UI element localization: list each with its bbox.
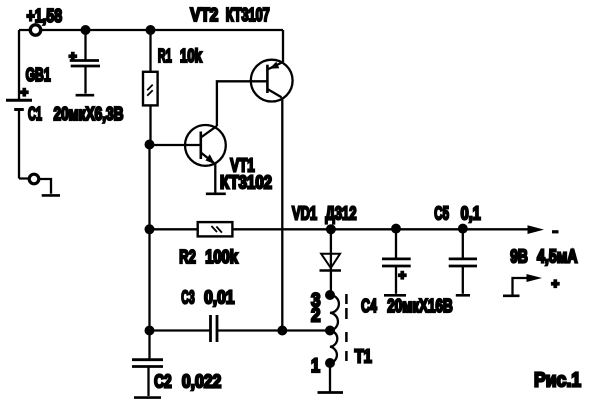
svg-text:R2: R2 <box>179 247 196 267</box>
label VT2 <box>190 5 269 25</box>
node C1 top junction <box>81 25 91 35</box>
svg-text:Т1: Т1 <box>355 347 372 367</box>
capacitor C4 <box>382 229 411 294</box>
ground bar C1 <box>76 94 95 97</box>
svg-text:100k: 100k <box>205 247 239 267</box>
arrow output minus <box>528 225 545 234</box>
wire left vertical R1 to C2 <box>148 145 150 331</box>
svg-text:C3: C3 <box>181 288 194 308</box>
svg-text:4,5мА: 4,5мА <box>537 247 578 267</box>
capacitor C2 <box>132 331 163 397</box>
svg-text:VD1: VD1 <box>292 204 317 224</box>
wire R2 left <box>150 228 198 230</box>
svg-text:C5: C5 <box>434 204 449 224</box>
label pin 2 <box>311 306 321 327</box>
core T1 dashed <box>345 294 348 361</box>
node VD1 anode junction <box>326 224 336 234</box>
wire VT2 emitter lead <box>282 30 284 62</box>
svg-text:+: + <box>21 85 29 100</box>
wire left battery lead <box>18 30 20 99</box>
node C5 top junction <box>458 224 468 234</box>
inductor T1 lower winding <box>330 331 337 364</box>
svg-text:КТ3107: КТ3107 <box>226 5 270 25</box>
resistor R1 <box>143 30 158 145</box>
svg-text:1: 1 <box>311 356 320 377</box>
resistor R2 <box>198 222 233 236</box>
label C4 plus <box>399 268 407 283</box>
node T1 pin3 <box>325 290 335 300</box>
svg-text:Д312: Д312 <box>325 204 356 224</box>
svg-text:10k: 10k <box>180 46 203 66</box>
wire to T1 tap <box>282 329 330 331</box>
capacitor C1 <box>70 30 100 94</box>
terminal battery negative <box>29 174 39 184</box>
wire VT2 collector lead <box>281 97 283 330</box>
svg-text:C2: C2 <box>154 372 172 392</box>
svg-text:20мкХ6,3В: 20мкХ6,3В <box>54 104 124 124</box>
wire VT1 base <box>150 144 201 146</box>
terminal +1,58 input <box>30 25 40 35</box>
label T1 <box>355 347 372 367</box>
ground bar output plus <box>503 294 520 297</box>
arrow output plus <box>527 274 543 282</box>
label figure caption <box>534 370 581 392</box>
svg-text:C1: C1 <box>28 104 42 124</box>
label minus sign <box>552 230 559 233</box>
ground bar C4 <box>384 294 406 297</box>
ground bar C2 <box>134 396 161 399</box>
label GB1 <box>26 65 51 85</box>
svg-text:GB1: GB1 <box>26 65 51 85</box>
label C3 <box>181 288 234 308</box>
diode VD1 <box>320 229 342 295</box>
transistor VT1 <box>185 125 226 193</box>
inductor T1 upper winding <box>330 295 339 331</box>
label GB1 plus <box>21 85 29 100</box>
label +1,58 <box>27 6 63 26</box>
label pin 1 <box>311 356 320 377</box>
ground bar battery negative <box>42 194 60 197</box>
wire top supply rail <box>19 29 283 31</box>
svg-text:VT2: VT2 <box>190 5 218 25</box>
label plus sign <box>552 276 560 291</box>
svg-text:2: 2 <box>311 306 321 327</box>
svg-text:0,01: 0,01 <box>204 288 234 308</box>
capacitor C5 <box>449 229 477 294</box>
label output voltage <box>510 247 577 267</box>
svg-text:КТ3102: КТ3102 <box>220 173 272 193</box>
svg-text:+: + <box>399 268 407 283</box>
svg-text:0,1: 0,1 <box>461 204 481 224</box>
ground bar VT1 emitter <box>206 193 226 196</box>
ground bar T1 <box>318 391 344 394</box>
transistor VT2 <box>251 60 293 102</box>
node C2 top junction <box>145 326 155 336</box>
label VD1 <box>292 204 357 224</box>
svg-text:C4: C4 <box>361 296 377 316</box>
node R2 left junction <box>145 224 155 234</box>
label VT1 type <box>220 173 272 193</box>
svg-text:+1,58: +1,58 <box>27 6 63 26</box>
battery GB1 <box>6 100 32 178</box>
svg-text:R1: R1 <box>158 46 172 66</box>
label VT1 <box>230 156 254 176</box>
svg-text:9В: 9В <box>510 247 528 267</box>
svg-text:0,022: 0,022 <box>182 372 221 392</box>
label R2 <box>179 247 239 267</box>
wire output plus <box>513 278 530 295</box>
label pin 3 <box>311 291 321 312</box>
label C1 plus <box>69 49 77 64</box>
node T1 pin2 tap <box>325 326 335 336</box>
node C3 right junction <box>277 326 287 336</box>
wire battery negative lead <box>19 179 51 194</box>
label C1 value <box>28 104 124 124</box>
svg-text:+: + <box>552 276 560 291</box>
wire VT1 collector to VT2 base <box>217 81 268 126</box>
label C2 <box>154 372 221 392</box>
capacitor C3 <box>150 315 283 342</box>
node VT1 base junction <box>145 140 155 150</box>
node C4 top junction <box>391 224 401 234</box>
node T1 pin1 <box>325 358 335 368</box>
node R1 top junction <box>146 25 156 35</box>
label C4 value <box>361 296 453 316</box>
label R1 <box>158 46 203 66</box>
wire T1 pin1 lead <box>329 363 331 392</box>
svg-text:20мкХ16В: 20мкХ16В <box>387 296 452 316</box>
wire output rail <box>232 228 531 230</box>
svg-text:+: + <box>69 49 77 64</box>
label C5 <box>434 204 480 224</box>
ground bar C5 <box>456 294 470 297</box>
svg-text:Рис.1: Рис.1 <box>534 370 581 392</box>
